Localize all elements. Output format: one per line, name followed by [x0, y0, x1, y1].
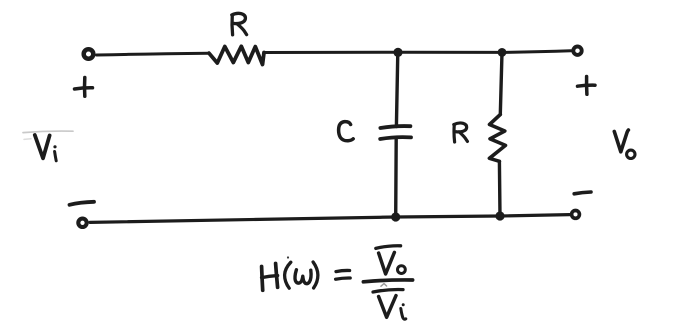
- wire bottom segment: [90, 215, 570, 223]
- plus sign output: [578, 77, 596, 95]
- wire top-left segment: [97, 53, 210, 55]
- formula denominator Vi with overbar: [373, 290, 406, 320]
- shunt resistor R2 bottom lead: [498, 161, 502, 216]
- small chevron mark under fraction bar: [381, 284, 387, 287]
- formula numerator Vo with overbar: [376, 246, 406, 274]
- terminal top-left: [84, 49, 94, 59]
- capacitor C1 top lead: [396, 52, 397, 126]
- capacitor C1 top plate: [380, 126, 410, 128]
- node junction top of shunt resistor: [498, 48, 507, 57]
- label Vi: [35, 135, 57, 161]
- capacitor C1 bottom plate: [380, 137, 411, 139]
- node junction bottom of capacitor: [391, 212, 400, 221]
- terminal bottom-right: [572, 211, 580, 219]
- label R series resistor: [232, 13, 247, 34]
- formula fraction bar: [363, 280, 412, 282]
- plus sign input: [75, 78, 93, 97]
- label Vo: [614, 130, 635, 159]
- capacitor C1 bottom lead: [394, 138, 398, 217]
- faint smudge above Vi: [23, 131, 73, 133]
- label C: [339, 122, 354, 141]
- terminal top-right: [573, 47, 581, 55]
- formula H of omega: [262, 256, 351, 290]
- shunt resistor R2 zigzag: [489, 115, 505, 162]
- resistor R1 series zigzag: [209, 46, 264, 64]
- wire top-right segment: [264, 51, 571, 53]
- node junction top of capacitor: [393, 48, 402, 57]
- terminal bottom-left: [78, 219, 86, 227]
- label R shunt resistor: [454, 123, 468, 142]
- shunt resistor R2 top lead: [500, 52, 502, 114]
- minus sign input: [70, 202, 95, 205]
- node junction bottom of shunt resistor: [495, 211, 504, 220]
- minus sign output: [574, 192, 591, 194]
